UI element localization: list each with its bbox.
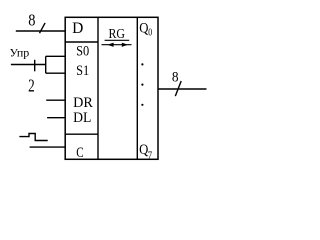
wire to DR xyxy=(46,99,65,101)
svg-text:DL: DL xyxy=(73,110,91,126)
wire D input bus xyxy=(16,30,65,32)
bidirectional shift arrow xyxy=(102,43,132,47)
svg-text:8: 8 xyxy=(28,10,35,29)
wire to DL xyxy=(47,117,65,119)
register U1 right column divider xyxy=(136,17,138,159)
ellipsis dots xyxy=(141,63,143,106)
svg-text:S0: S0 xyxy=(76,43,89,59)
wire to S1 xyxy=(46,72,65,74)
wire to C xyxy=(30,146,66,148)
svg-text:0: 0 xyxy=(148,27,152,39)
wire branch vertical to S0 S1 xyxy=(45,56,47,73)
wire Q output bus xyxy=(158,88,207,90)
bus width slash on output xyxy=(175,81,181,96)
bus width slash on D input xyxy=(40,23,46,33)
wire to S0 xyxy=(46,55,65,57)
svg-text:Q: Q xyxy=(139,20,148,36)
output Q0 xyxy=(139,20,152,38)
register U1 left column divider xyxy=(97,17,99,159)
register U1 C section divider xyxy=(65,133,98,135)
function label RG underlined xyxy=(105,27,130,42)
svg-text:S1: S1 xyxy=(76,63,89,79)
svg-text:Упр: Упр xyxy=(10,47,30,59)
wire Upr input xyxy=(11,64,46,66)
svg-text:8: 8 xyxy=(172,70,179,86)
bus width tick on Upr wire xyxy=(34,60,36,72)
svg-text:C: C xyxy=(76,145,83,161)
register U1 D section divider xyxy=(65,41,98,43)
svg-text:2: 2 xyxy=(28,75,35,95)
svg-text:DR: DR xyxy=(73,95,93,111)
register U1 box outline xyxy=(65,17,158,159)
svg-text:7: 7 xyxy=(148,149,153,161)
clock pulse symbol xyxy=(19,134,47,141)
svg-text:D: D xyxy=(72,20,83,37)
output Q7 xyxy=(139,142,152,161)
